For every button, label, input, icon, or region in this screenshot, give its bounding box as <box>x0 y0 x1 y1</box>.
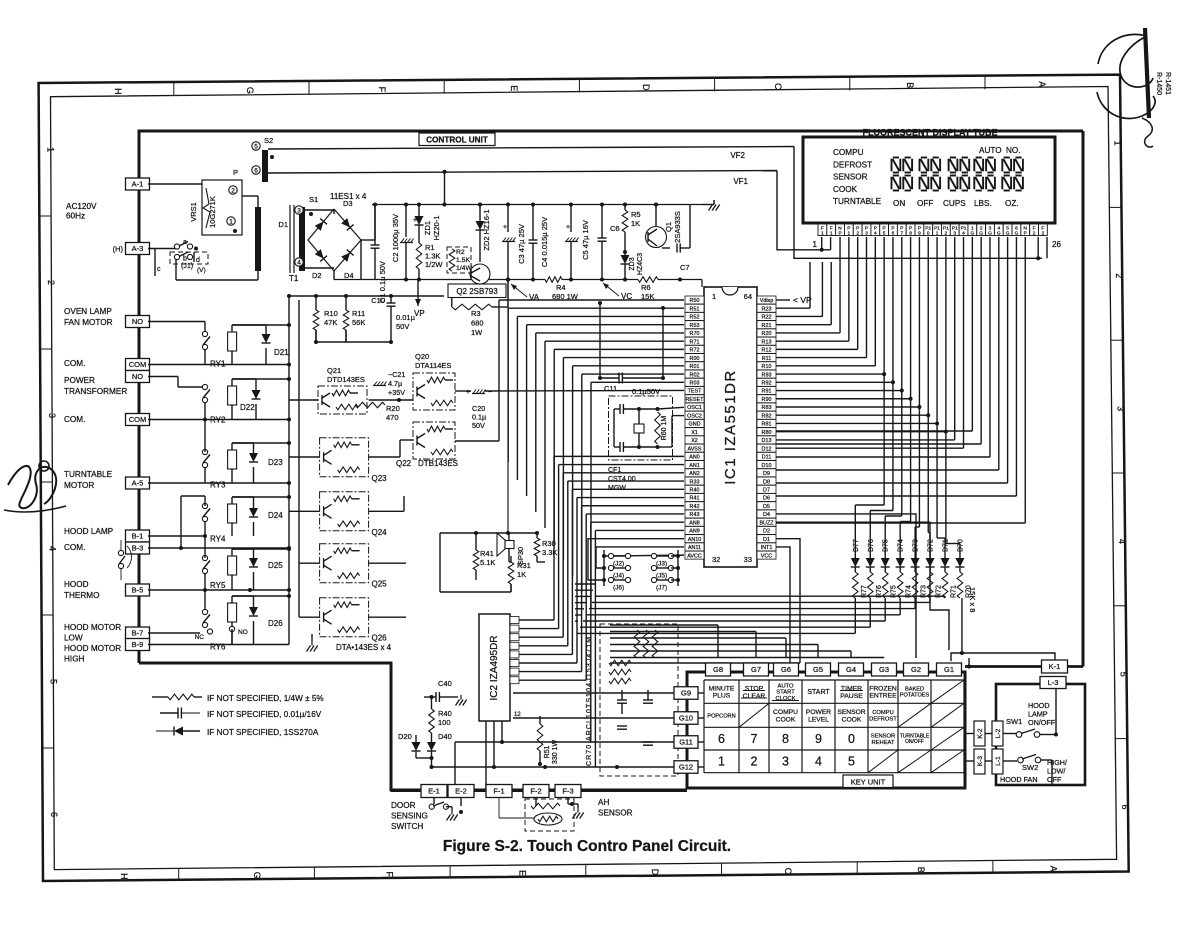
svg-text:P: P <box>874 225 877 231</box>
svg-text:FAN MOTOR: FAN MOTOR <box>64 318 113 327</box>
svg-text:0.1µ50V: 0.1µ50V <box>632 387 660 396</box>
svg-text:0: 0 <box>848 732 855 746</box>
svg-text:15K x 8: 15K x 8 <box>968 587 977 612</box>
svg-text:5.1K: 5.1K <box>480 558 495 567</box>
svg-text:G: G <box>1015 231 1019 237</box>
svg-text:COMPU: COMPU <box>833 148 864 157</box>
svg-text:D1: D1 <box>278 220 288 229</box>
varistor VRS1 <box>202 180 242 235</box>
svg-text:56K: 56K <box>352 318 365 327</box>
svg-text:G: G <box>1006 231 1010 237</box>
ground near Q1 <box>713 200 715 205</box>
svg-text:G: G <box>979 231 983 237</box>
svg-text:DTA114ES: DTA114ES <box>415 361 451 370</box>
resistor R11 <box>345 296 347 310</box>
svg-text:1.5K: 1.5K <box>456 257 470 264</box>
KEY UNIT label <box>843 775 893 788</box>
svg-text:ON/OFF: ON/OFF <box>1028 718 1056 727</box>
svg-text:b: b <box>183 256 187 263</box>
svg-text:CLOCK: CLOCK <box>776 696 796 702</box>
svg-text:BAKED: BAKED <box>905 687 924 693</box>
svg-text:R72: R72 <box>690 348 700 354</box>
capacitor C1 <box>374 205 376 246</box>
ceramic resonator CF1 <box>609 396 673 460</box>
svg-text:D11: D11 <box>762 455 772 461</box>
svg-text:5: 5 <box>1006 225 1009 231</box>
svg-text:PLUS: PLUS <box>713 693 731 700</box>
svg-text:D13: D13 <box>762 438 772 444</box>
svg-text:G5: G5 <box>813 665 823 674</box>
wire bus IC2 to LED ladder <box>575 583 596 585</box>
wire VB to VF line <box>444 172 446 205</box>
svg-text:Q22: Q22 <box>396 459 412 468</box>
svg-text:R53: R53 <box>690 323 700 329</box>
svg-text:R10: R10 <box>762 364 772 370</box>
resistor R2 <box>447 247 471 273</box>
svg-text:HOOD: HOOD <box>64 580 89 589</box>
svg-text:LOW: LOW <box>64 634 83 643</box>
svg-text:P: P <box>891 225 894 231</box>
svg-text:R11: R11 <box>352 309 365 318</box>
svg-text:50V: 50V <box>396 322 409 331</box>
svg-text:2: 2 <box>1033 231 1036 237</box>
svg-text:R80: R80 <box>762 430 772 436</box>
svg-text:32: 32 <box>712 555 720 564</box>
svg-text:F-1: F-1 <box>493 787 504 796</box>
svg-text:SW1: SW1 <box>1006 717 1022 726</box>
RC network resistors and capacitors <box>634 630 640 658</box>
svg-text:B-5: B-5 <box>132 586 144 595</box>
svg-text:C6: C6 <box>610 224 620 233</box>
svg-text:R01: R01 <box>690 364 700 370</box>
IC1 right pin stubs <box>757 296 776 304</box>
svg-text:P: P <box>909 225 912 231</box>
zener ZD2 <box>479 205 481 222</box>
svg-text:Q26: Q26 <box>372 634 388 643</box>
svg-text:6: 6 <box>1120 804 1130 809</box>
svg-text:(V): (V) <box>197 267 206 274</box>
svg-text:TIMER: TIMER <box>841 685 862 692</box>
svg-text:R23: R23 <box>762 306 772 312</box>
svg-text:6: 6 <box>718 732 725 746</box>
svg-text:S2: S2 <box>264 136 273 145</box>
svg-text:1: 1 <box>821 231 824 237</box>
svg-text:+: + <box>566 224 570 231</box>
svg-text:2: 2 <box>856 231 859 237</box>
capacitor C11 <box>618 373 620 384</box>
svg-text:G11: G11 <box>679 738 693 747</box>
svg-text:12: 12 <box>514 712 521 718</box>
svg-text:33: 33 <box>744 555 752 564</box>
svg-text:2SA933S: 2SA933S <box>673 211 682 243</box>
svg-text:HOOD MOTOR: HOOD MOTOR <box>64 644 121 653</box>
svg-text:MINUTE: MINUTE <box>709 685 735 692</box>
svg-text:R41: R41 <box>480 549 494 558</box>
svg-text:1: 1 <box>718 755 725 769</box>
svg-text:G4: G4 <box>846 665 856 674</box>
svg-text:A-3: A-3 <box>132 244 144 253</box>
unused key cells diagonals <box>931 680 964 703</box>
svg-text:B: B <box>916 867 926 873</box>
svg-text:HOOD FAN: HOOD FAN <box>1000 775 1038 784</box>
IC U1 IZA551DR body <box>704 287 757 567</box>
svg-text:E-1: E-1 <box>428 787 440 796</box>
capacitor C10 <box>390 296 392 303</box>
svg-text:L-3: L-3 <box>1048 678 1059 687</box>
svg-text:2: 2 <box>980 225 983 231</box>
svg-text:P: P <box>1024 231 1027 237</box>
svg-text:IF NOT SPECIFIED, 1SS270A: IF NOT SPECIFIED, 1SS270A <box>207 728 319 737</box>
svg-text:P1: P1 <box>943 225 949 231</box>
svg-text:(H): (H) <box>113 245 124 254</box>
svg-text:SW2: SW2 <box>1022 763 1038 772</box>
svg-text:AUTO: AUTO <box>979 146 1002 155</box>
wires D20 D40 bottom <box>416 757 432 759</box>
wire bus vertical middle bundle <box>553 456 555 620</box>
svg-text:C4 0.015µ 25V: C4 0.015µ 25V <box>540 217 549 267</box>
svg-text:GND: GND <box>689 422 701 428</box>
svg-text:VRS1: VRS1 <box>189 202 198 222</box>
svg-text:R42: R42 <box>690 504 700 510</box>
svg-text:1: 1 <box>1113 140 1123 145</box>
resistor R3 <box>451 298 453 308</box>
svg-text:D26: D26 <box>268 619 283 628</box>
svg-text:RESET: RESET <box>686 397 705 403</box>
bridge rectifier D1-D4 <box>308 209 361 271</box>
wire VF2 <box>268 147 794 150</box>
resistor R6 inline <box>638 277 658 283</box>
wire bus LED columns <box>882 372 886 376</box>
svg-text:POPCORN: POPCORN <box>707 713 735 719</box>
svg-text:4: 4 <box>297 259 301 266</box>
svg-text:P: P <box>865 225 868 231</box>
svg-text:OSC1: OSC1 <box>687 405 702 411</box>
svg-text:d: d <box>196 257 200 264</box>
svg-text:C: C <box>773 83 783 90</box>
svg-text:C11: C11 <box>604 384 617 393</box>
svg-text:−C21: −C21 <box>388 370 405 379</box>
svg-text:CONTROL UNIT: CONTROL UNIT <box>426 136 488 145</box>
svg-text:1K: 1K <box>631 219 640 228</box>
svg-text:PAUSE: PAUSE <box>840 693 863 700</box>
svg-text:COM: COM <box>129 360 147 369</box>
wire S1 to bridge <box>305 209 334 211</box>
svg-text:R22: R22 <box>762 315 772 321</box>
svg-text:LBS.: LBS. <box>974 199 992 208</box>
svg-text:C: C <box>783 868 793 875</box>
svg-text:AN9: AN9 <box>689 529 700 535</box>
svg-text:5: 5 <box>48 679 58 684</box>
svg-text:F: F <box>1033 225 1036 231</box>
svg-text:INT1: INT1 <box>761 545 773 551</box>
display 14-segment digits <box>893 157 899 159</box>
svg-text:SENSOR: SENSOR <box>837 709 865 716</box>
svg-text:COOK: COOK <box>842 716 862 723</box>
thick wire bottom rail <box>391 789 687 792</box>
svg-text:P: P <box>233 168 238 177</box>
svg-text:C40: C40 <box>438 679 452 688</box>
svg-text:R50: R50 <box>690 298 700 304</box>
wire bridge output+ <box>361 239 375 241</box>
svg-text:5: 5 <box>1119 672 1129 677</box>
display tube pin row 1-26 <box>818 224 827 236</box>
svg-text:(J4): (J4) <box>613 573 624 580</box>
connector A-3 <box>126 243 150 255</box>
diode D20 <box>412 742 421 751</box>
svg-text:P1: P1 <box>952 225 958 231</box>
svg-text:1W: 1W <box>471 328 483 337</box>
node VP main <box>417 287 419 306</box>
svg-text:CST4.00: CST4.00 <box>608 476 636 483</box>
svg-text:F-3: F-3 <box>562 787 573 796</box>
svg-text:A: A <box>1037 81 1047 87</box>
connector L-3 <box>1040 677 1066 689</box>
svg-text:Q24: Q24 <box>372 528 388 537</box>
svg-text:AN10: AN10 <box>688 537 702 543</box>
switch SW1 <box>1016 732 1022 738</box>
svg-text:NO: NO <box>132 372 143 381</box>
svg-text:1: 1 <box>830 231 833 237</box>
svg-text:AN0: AN0 <box>689 455 700 461</box>
svg-text:NO: NO <box>132 317 143 326</box>
connector K-2 <box>974 721 985 746</box>
svg-text:CLEAR: CLEAR <box>743 693 766 700</box>
svg-text:D70: D70 <box>957 539 964 552</box>
power rail VB <box>372 204 702 206</box>
resistor R60 <box>655 412 661 444</box>
svg-text:R20: R20 <box>762 331 772 337</box>
wire K-1 vertical <box>968 658 970 667</box>
svg-text:3.3K: 3.3K <box>542 548 557 557</box>
wires below IC2 <box>485 721 487 791</box>
svg-text:R51: R51 <box>690 306 700 312</box>
wire bus IC1 right pins to display pins <box>776 307 810 309</box>
wires G9-G12 rows <box>513 692 674 694</box>
svg-text:1: 1 <box>712 292 716 301</box>
IC2 pin stubs and fan <box>510 617 519 624</box>
svg-text:100: 100 <box>438 718 451 727</box>
svg-text:C2 1000µ 35V: C2 1000µ 35V <box>391 214 400 262</box>
svg-text:R20: R20 <box>386 404 400 413</box>
jumpers J3 J5 J7 <box>651 553 656 558</box>
wires hood connectors <box>965 733 974 735</box>
svg-text:D8: D8 <box>763 479 770 485</box>
svg-text:P: P <box>856 225 859 231</box>
svg-text:RY3: RY3 <box>210 481 226 490</box>
svg-text:COOK: COOK <box>833 185 858 194</box>
svg-text:FROZEN: FROZEN <box>869 685 897 692</box>
svg-text:(J5): (J5) <box>656 573 667 580</box>
svg-text:C7: C7 <box>680 263 690 272</box>
connector L-1 <box>992 749 1003 774</box>
svg-text:HOOD LAMP: HOOD LAMP <box>64 527 114 536</box>
svg-text:P: P <box>900 225 903 231</box>
svg-text:2: 2 <box>231 187 235 194</box>
svg-text:P: P <box>918 225 921 231</box>
svg-text:B-3: B-3 <box>132 544 144 553</box>
svg-text:T1: T1 <box>289 274 299 283</box>
svg-text:R71: R71 <box>690 339 700 345</box>
svg-text:P: P <box>838 231 841 237</box>
svg-text:START: START <box>776 690 795 696</box>
svg-text:R00: R00 <box>690 356 700 362</box>
jumpers J2 J4 J6 <box>608 553 613 558</box>
svg-text:8: 8 <box>782 732 789 746</box>
LED diodes D77-D70 and resistors R77-R70 <box>851 558 860 567</box>
svg-text:K-2: K-2 <box>977 728 984 739</box>
svg-text:D: D <box>641 84 651 91</box>
wire bus G strobe lines <box>610 624 718 626</box>
svg-text:D73: D73 <box>913 539 920 552</box>
svg-text:HZ20-1: HZ20-1 <box>432 215 441 240</box>
svg-text:IF NOT SPECIFIED, 1/4W ± 5%: IF NOT SPECIFIED, 1/4W ± 5% <box>207 694 324 703</box>
svg-text:2: 2 <box>1042 231 1045 237</box>
svg-text:D76: D76 <box>868 539 875 552</box>
svg-text:G1: G1 <box>944 665 954 674</box>
connectors G8-G1 <box>706 663 731 676</box>
svg-text:POTATOES: POTATOES <box>900 693 930 699</box>
capacitor C5 <box>570 205 572 233</box>
svg-text:Q23: Q23 <box>372 474 388 483</box>
capacitor C6 <box>601 205 603 239</box>
svg-text:L-2: L-2 <box>995 728 1002 738</box>
svg-text:R-1450: R-1450 <box>1155 72 1162 95</box>
svg-text:G: G <box>970 231 974 237</box>
svg-text:VF2: VF2 <box>730 151 745 160</box>
resistor R51 <box>537 724 543 751</box>
switch SW2 <box>1018 757 1024 763</box>
svg-text:−: − <box>488 389 492 396</box>
svg-text:ENTREE: ENTREE <box>869 693 897 700</box>
svg-text:C3 47µ 25V: C3 47µ 25V <box>517 224 526 264</box>
svg-text:1/2W: 1/2W <box>425 260 443 269</box>
svg-text:OFF: OFF <box>1047 775 1062 784</box>
connector A-1 <box>126 178 150 190</box>
svg-text:TEST: TEST <box>688 389 702 395</box>
svg-text:D7: D7 <box>763 487 770 493</box>
svg-text:60Hz: 60Hz <box>66 212 85 221</box>
svg-text:ON: ON <box>893 199 905 208</box>
capacitor C2 <box>405 205 407 238</box>
legend resistor <box>168 694 194 700</box>
svg-text:OFF: OFF <box>917 199 933 208</box>
svg-text:K-3: K-3 <box>977 756 984 767</box>
svg-text:Q2 2SB793: Q2 2SB793 <box>456 287 498 296</box>
svg-text:2: 2 <box>751 755 758 769</box>
legend capacitor <box>177 708 179 719</box>
svg-text:P: P <box>847 225 850 231</box>
svg-text:3: 3 <box>865 231 868 237</box>
svg-text:SENSOR: SENSOR <box>598 809 633 818</box>
capacitor C3 <box>507 205 509 233</box>
svg-text:6: 6 <box>254 167 258 174</box>
wire A-3 to interlock <box>148 248 176 250</box>
IC U2 IZA495DR body <box>479 614 510 721</box>
svg-text:9: 9 <box>918 231 921 237</box>
node VP at Vdisp <box>776 299 790 301</box>
svg-text:R30: R30 <box>542 539 556 548</box>
resistor R30 <box>534 538 540 556</box>
svg-text:(J3): (J3) <box>656 561 667 568</box>
wire R70 to K-1 node <box>961 598 963 653</box>
svg-text:4: 4 <box>962 231 965 237</box>
svg-text:5: 5 <box>848 755 855 769</box>
transistor Q2 <box>470 264 490 284</box>
page inner border frame <box>51 87 1117 870</box>
svg-text:B: B <box>905 82 915 88</box>
connectors G9-G12 <box>674 687 698 700</box>
svg-text:DOOR: DOOR <box>391 801 416 810</box>
svg-text:R3: R3 <box>471 309 481 318</box>
svg-text:CUPS: CUPS <box>943 199 966 208</box>
svg-text:AN11: AN11 <box>688 545 701 551</box>
svg-text:H: H <box>113 88 123 95</box>
svg-text:DTB143ES: DTB143ES <box>418 459 458 468</box>
svg-text:SENSOR: SENSOR <box>833 173 868 182</box>
hood switch box <box>996 684 1085 785</box>
svg-text:2: 2 <box>46 280 56 285</box>
svg-text:Vdisp: Vdisp <box>760 298 774 304</box>
svg-text:OVEN LAMP: OVEN LAMP <box>64 307 112 316</box>
svg-text:THERMO: THERMO <box>64 591 99 600</box>
svg-text:B-9: B-9 <box>132 640 144 649</box>
svg-text:470: 470 <box>386 413 399 422</box>
handwritten squiggle left margin <box>8 466 56 508</box>
svg-text:X1: X1 <box>691 430 698 436</box>
svg-text:6: 6 <box>892 231 895 237</box>
wires AVCC AN11 to jumpers <box>604 554 684 557</box>
svg-text:TURNTABLE: TURNTABLE <box>833 197 882 206</box>
svg-text:9: 9 <box>815 732 822 746</box>
svg-text:DTD143ES: DTD143ES <box>327 375 365 384</box>
svg-text:AC120V: AC120V <box>66 202 97 211</box>
svg-text:VCC: VCC <box>761 553 772 559</box>
svg-text:G2: G2 <box>911 665 921 674</box>
svg-text:COMPU: COMPU <box>773 709 798 716</box>
RC network dashed box <box>600 624 678 776</box>
svg-text:R33: R33 <box>690 479 700 485</box>
svg-text:R91: R91 <box>762 389 772 395</box>
svg-text:P1: P1 <box>961 225 967 231</box>
resistor R31 <box>508 562 514 584</box>
svg-text:Q1: Q1 <box>664 222 673 232</box>
svg-text:3: 3 <box>47 413 57 418</box>
svg-text:AVCC: AVCC <box>687 553 702 559</box>
svg-text:R70: R70 <box>690 331 700 337</box>
svg-text:Q20: Q20 <box>415 352 429 361</box>
left connector boxes NO/COM/A-5/B-1/B-3/B-5/B-7/B-9 <box>126 316 150 328</box>
svg-text:POWER: POWER <box>806 709 831 716</box>
svg-text:R2: R2 <box>456 249 465 256</box>
connector L-2 <box>992 721 1003 746</box>
svg-text:4: 4 <box>815 755 822 769</box>
svg-text:AN2: AN2 <box>689 471 700 477</box>
svg-text:NO: NO <box>238 629 248 636</box>
svg-text:X2: X2 <box>691 438 698 444</box>
svg-text:1: 1 <box>936 231 939 237</box>
svg-text:F: F <box>830 225 833 231</box>
svg-text:G10: G10 <box>679 714 693 723</box>
svg-text:MGW: MGW <box>608 485 626 492</box>
svg-text:R13: R13 <box>762 339 772 345</box>
svg-text:4: 4 <box>874 231 877 237</box>
svg-text:A: A <box>1049 866 1059 872</box>
svg-text:NC: NC <box>195 634 205 641</box>
svg-text:ZD2 HZ16-1: ZD2 HZ16-1 <box>482 209 491 250</box>
svg-text:Figure S-2. Touch Contro Panel: Figure S-2. Touch Contro Panel Circuit. <box>443 838 731 855</box>
svg-text:3: 3 <box>953 231 956 237</box>
IC1 left pin stubs <box>685 296 704 304</box>
